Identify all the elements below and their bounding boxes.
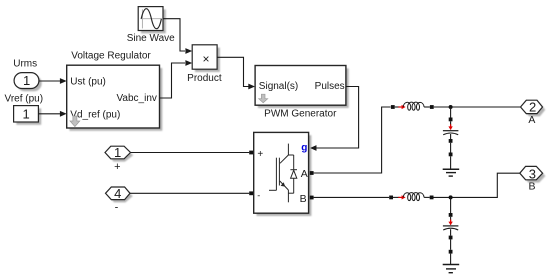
- inductor L1 coil: [403, 102, 424, 110]
- capacitor C1 bottom lead: [450, 134, 452, 139]
- IGBT icon: gate lead: [269, 189, 276, 191]
- diode D1: cathode bar: [290, 169, 297, 171]
- IGBT icon: top tie: [288, 154, 293, 156]
- wire hexagon4 to bridge -: [130, 192, 249, 194]
- svg-text:Signal(s): Signal(s): [259, 81, 298, 92]
- IGBT icon: emitter arrow: [281, 182, 286, 186]
- inport hexagon 4: [106, 187, 131, 200]
- wire Pulses to g: [316, 87, 359, 149]
- half-bridge IGBT block: [254, 132, 309, 213]
- svg-text:A: A: [301, 168, 308, 180]
- outport hexagon 3 shadow: [523, 169, 546, 182]
- ground 2 bars: [443, 264, 460, 266]
- wire sine wave to product: [163, 19, 185, 51]
- svg-text:B: B: [528, 180, 535, 192]
- IGBT icon: body bar: [278, 158, 280, 186]
- wire Vabc_inv to product: [160, 63, 186, 98]
- junction node 2: [449, 195, 453, 199]
- ground 2 port square: [449, 250, 453, 254]
- svg-text:B: B: [300, 193, 307, 205]
- capacitor C1 top lead: [450, 121, 452, 129]
- inport hexagon 1 shadow: [108, 149, 134, 162]
- svg-text:Vabc_inv: Vabc_inv: [116, 93, 156, 104]
- outport hexagon 3: [520, 166, 543, 179]
- inductor L1 port square right: [430, 105, 434, 109]
- inductor L1 red current arrow: [398, 105, 405, 109]
- capacitor C2 port square bottom: [449, 236, 453, 240]
- svg-text:4: 4: [114, 186, 121, 201]
- capacitor C1 port square top: [449, 118, 453, 122]
- svg-text:Urms: Urms: [13, 59, 37, 70]
- constant block Vref shadow: [16, 108, 41, 124]
- subsystem Voltage Regulator shadow: [70, 68, 163, 131]
- svg-text:g: g: [301, 142, 307, 153]
- svg-text:Ust (pu): Ust (pu): [70, 76, 106, 87]
- sine icon axes: [141, 9, 143, 28]
- product block: [192, 45, 217, 69]
- svg-text:Pulses: Pulses: [315, 81, 345, 92]
- wire inductor1 to port 2: [434, 106, 521, 108]
- IGBT icon: bottom tie: [288, 192, 293, 194]
- capacitor C2 top plate: [443, 225, 459, 227]
- inductor L2 coil: [403, 193, 424, 201]
- sine wave block: [138, 7, 163, 31]
- svg-text:×: ×: [202, 52, 209, 66]
- wire bridge B to inductor 2: [314, 196, 390, 198]
- inductor L2 port square left: [389, 196, 393, 200]
- svg-text:-: -: [257, 191, 260, 201]
- junction node 1: [449, 105, 453, 109]
- IGBT icon: bottom lead: [287, 190, 289, 202]
- inport block Urms (oval "1"): [14, 73, 39, 89]
- sine icon curve: [141, 9, 161, 29]
- bridge port square +: [249, 151, 253, 155]
- wire junction2 down to capacitor C2: [450, 197, 452, 213]
- svg-text:1: 1: [114, 145, 121, 160]
- inductor L1 lead right: [424, 106, 430, 108]
- svg-text:2: 2: [529, 99, 536, 114]
- svg-text:PWM Generator: PWM Generator: [264, 109, 337, 120]
- IGBT icon: emitter diagonal: [280, 181, 289, 190]
- wire product to PWM generator: [217, 57, 248, 86]
- bridge port square B: [310, 196, 314, 200]
- subsystem Voltage Regulator: [67, 65, 160, 128]
- wire inductor2 to port 3: [434, 173, 520, 197]
- capacitor C1 red arrow: [448, 124, 452, 130]
- wire hexagon1 to bridge +: [131, 152, 250, 154]
- svg-text:A: A: [528, 114, 535, 126]
- constant block Vref (rect "1"): [14, 106, 39, 122]
- inductor L1 lead left: [395, 106, 400, 108]
- ground 1 bars: [443, 168, 460, 170]
- inport block Urms shadow: [17, 75, 42, 91]
- wire capacitor C1 to ground 1: [450, 143, 452, 153]
- product block shadow: [195, 48, 220, 72]
- diode D1: triangle: [291, 170, 297, 178]
- diode D1: vertical lead: [293, 155, 295, 193]
- ground 1 port square: [449, 153, 453, 157]
- bridge port square A: [310, 171, 314, 175]
- wire oval to regulator: [39, 80, 60, 82]
- capacitor C2 red arrow: [448, 220, 452, 226]
- svg-text:Vd_ref (pu): Vd_ref (pu): [70, 110, 120, 121]
- inductor L1 port square left: [391, 105, 395, 109]
- PWM Generator block: [255, 66, 346, 106]
- inport hexagon 1: [105, 146, 131, 159]
- capacitor C1 port square bottom: [449, 139, 453, 143]
- svg-text:Sine Wave: Sine Wave: [127, 33, 175, 44]
- wire constant to regulator: [38, 113, 60, 115]
- svg-text:Vref (pu): Vref (pu): [5, 94, 44, 105]
- capacitor C2 port square top: [449, 213, 453, 217]
- load arrow (gray) in Voltage Regulator: [70, 116, 80, 127]
- inport hexagon 4 shadow: [108, 190, 133, 203]
- capacitor C2 bottom lead: [450, 229, 452, 235]
- inductor L2 lead right: [424, 196, 430, 198]
- wire capacitor C2 to ground 2: [450, 239, 452, 249]
- svg-text:Product: Product: [187, 73, 222, 84]
- g input arrowhead: [310, 145, 316, 151]
- outport hexagon 2: [521, 100, 543, 113]
- IGBT icon: top lead: [287, 144, 289, 155]
- ground 1 stem: [450, 156, 452, 169]
- IGBT icon: collector diagonal: [280, 155, 288, 163]
- svg-text:3: 3: [529, 166, 536, 181]
- IGBT icon: gate bar: [275, 158, 277, 191]
- svg-text:-: -: [115, 202, 119, 214]
- svg-text:+: +: [114, 161, 120, 173]
- capacitor C2 bottom plate (curved): [443, 228, 458, 230]
- ground 2 stem: [450, 254, 452, 265]
- svg-text:Voltage Regulator: Voltage Regulator: [71, 50, 151, 61]
- svg-text:1: 1: [23, 73, 30, 88]
- wire junction1 down to capacitor C1: [450, 107, 452, 118]
- svg-text:1: 1: [22, 107, 29, 122]
- wire bridge A to inductor 1: [314, 107, 391, 173]
- svg-text:+: +: [257, 149, 263, 160]
- inductor L2 lead left: [393, 196, 400, 198]
- PWM Generator block shadow: [258, 68, 349, 108]
- inductor L2 port square right: [430, 196, 434, 200]
- outport hexagon 2 shadow: [523, 103, 545, 116]
- half-bridge IGBT block shadow: [257, 135, 312, 216]
- capacitor C1 top plate: [443, 130, 459, 132]
- load arrow (gray) in PWM Generator: [259, 94, 268, 103]
- bridge port square -: [249, 191, 253, 195]
- capacitor C1 bottom plate (curved): [443, 133, 458, 135]
- sine wave block shadow: [141, 9, 166, 33]
- capacitor C2 top lead: [450, 217, 452, 225]
- inductor L2 red current arrow: [398, 195, 405, 199]
